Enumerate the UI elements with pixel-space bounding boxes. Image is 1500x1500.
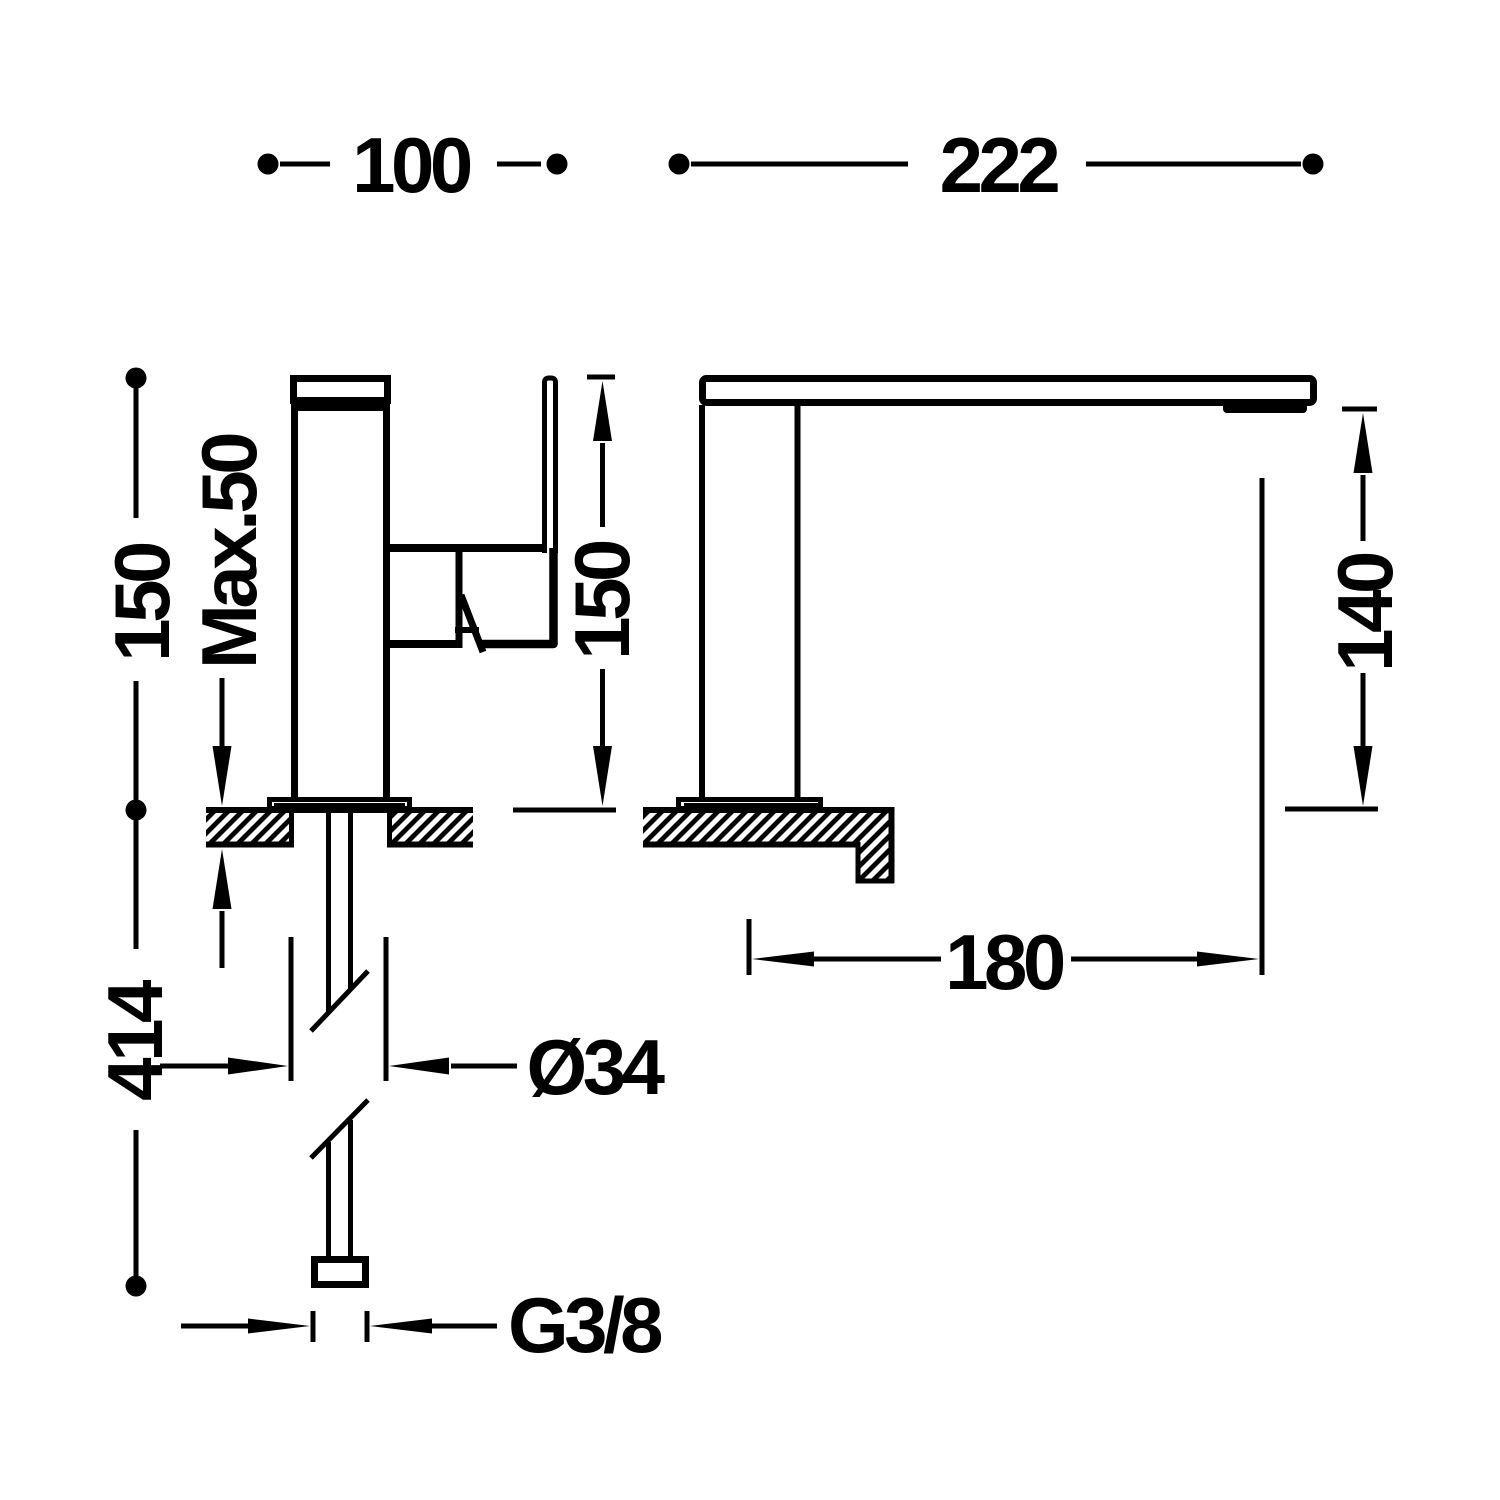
svg-text:150: 150: [558, 541, 646, 660]
dim 180 right extension line: [1260, 478, 1265, 975]
svg-text:100: 100: [352, 121, 471, 209]
dim 150 left upper line: [134, 386, 139, 518]
dim G3/8 left line: [181, 1324, 250, 1329]
dim 414 upper line: [134, 818, 139, 949]
dim 140 top tick: [1342, 407, 1377, 412]
front view cartridge crossbar: [455, 627, 479, 633]
dim shared middle dot: [126, 800, 147, 821]
dim G3/8 right line: [432, 1324, 497, 1329]
front view base flange: [270, 800, 410, 809]
front view counter left hatch: [206, 813, 289, 842]
supply rod lower left line: [326, 1142, 331, 1256]
side view countertop bottom line: [643, 842, 860, 848]
dim 150 right down arrowhead: [593, 746, 612, 806]
side view base flange: [679, 800, 821, 809]
dim O34 left-pointing arrowhead: [389, 1058, 449, 1075]
dim 222 right dot: [1303, 154, 1324, 175]
front view neck right edge and spout lower edge right segment: [480, 548, 554, 644]
svg-text:140: 140: [1321, 553, 1409, 672]
side view counter step inner edge: [856, 842, 861, 881]
front view counter hole right edge: [387, 810, 392, 847]
dim 150 left lower line: [134, 681, 139, 802]
dim 150 left top dot: [126, 368, 147, 389]
svg-text:180: 180: [945, 918, 1064, 1006]
dim 150 right lower line: [600, 669, 605, 746]
dim 222 right line: [1086, 162, 1301, 167]
dim G3/8 right tick: [365, 1311, 370, 1342]
dim Max.50 upper line: [220, 678, 225, 746]
front view cap joint bar: [295, 404, 384, 412]
dim 222 left line: [691, 162, 908, 167]
dim 180 left tick: [747, 919, 752, 975]
dim 140 down arrowhead: [1354, 746, 1373, 806]
dim O34 right line: [451, 1064, 517, 1069]
dim 100 left line: [280, 162, 330, 167]
svg-text:Ø34: Ø34: [527, 1023, 665, 1111]
front view cartridge vertical line: [456, 550, 463, 648]
front view spout upper edge: [383, 544, 547, 552]
front view faucet top cap: [294, 379, 388, 401]
supply rod break slash 2: [311, 1100, 368, 1158]
side view spout: [703, 379, 1314, 403]
dim O34 right-pointing arrowhead: [228, 1058, 288, 1075]
dim 180 left line: [814, 957, 941, 962]
front view counter right bottom line: [387, 842, 473, 848]
dim G3/8 left-pointing arrowhead: [370, 1319, 432, 1334]
supply rod break slash 1: [311, 971, 368, 1031]
dim 140 bottom tick: [1285, 807, 1378, 812]
supply rod upper left line: [326, 813, 331, 1012]
svg-text:414: 414: [91, 980, 179, 1101]
front view base flange inner line: [274, 803, 405, 806]
dim 100 left dot: [258, 154, 279, 175]
front view spout lower edge left segment: [384, 640, 457, 648]
front view counter left bottom line: [206, 842, 294, 848]
dim 222 left dot: [669, 154, 690, 175]
dim O34 left extension line: [289, 937, 294, 1081]
dim 180 right line: [1071, 957, 1199, 962]
dim 180 right-pointing arrowhead: [1197, 952, 1259, 967]
front view handle lever plate: [545, 378, 556, 553]
front view countertop top line: [206, 807, 473, 813]
dim 140 up arrowhead: [1354, 413, 1373, 473]
dim 150 right top tick: [587, 375, 615, 380]
svg-text:222: 222: [940, 121, 1059, 209]
dim 150 right up arrowhead: [593, 381, 612, 441]
dim 414 bottom dot: [126, 1276, 147, 1297]
side view countertop right edge: [889, 807, 895, 883]
side view body left edge: [699, 405, 705, 799]
dim O34 left line: [160, 1064, 228, 1069]
front view cartridge diagonal line: [461, 595, 483, 652]
front view body left edge: [291, 404, 298, 799]
dim 100 right line: [497, 162, 541, 167]
dim 150 right bottom tick: [513, 808, 616, 813]
front view body right edge: [383, 404, 390, 800]
supply rod end nub: [315, 1260, 366, 1285]
svg-text:Max.50: Max.50: [185, 434, 273, 669]
side view counter hatch: [643, 813, 889, 879]
side view aerator bar: [1223, 403, 1307, 413]
dim Max.50 lower line: [220, 911, 225, 968]
supply rod upper right line: [348, 813, 353, 990]
dim Max.50 down arrowhead: [213, 746, 232, 806]
side view base flange inner line: [684, 803, 818, 806]
side view body right edge: [795, 405, 801, 799]
dim 100 right dot: [547, 154, 568, 175]
front view counter hole left edge: [289, 810, 294, 847]
dim G3/8 left tick: [311, 1311, 316, 1342]
svg-text:150: 150: [98, 543, 186, 662]
dim O34 right extension line: [384, 937, 389, 1081]
dim Max.50 up arrowhead: [213, 849, 232, 909]
svg-text:G3/8: G3/8: [508, 1281, 661, 1369]
dim 140 lower line: [1361, 673, 1366, 746]
dim 150 right upper line: [600, 443, 605, 527]
dim 180 left-pointing arrowhead: [752, 952, 814, 967]
side view countertop top line: [643, 807, 892, 813]
front view counter right hatch: [392, 813, 473, 842]
supply rod lower right line: [348, 1120, 353, 1256]
dim 414 lower line: [134, 1130, 139, 1278]
dim 140 upper line: [1361, 475, 1366, 541]
dim G3/8 right-pointing arrowhead: [248, 1319, 310, 1334]
side view counter step bottom line: [856, 879, 895, 884]
